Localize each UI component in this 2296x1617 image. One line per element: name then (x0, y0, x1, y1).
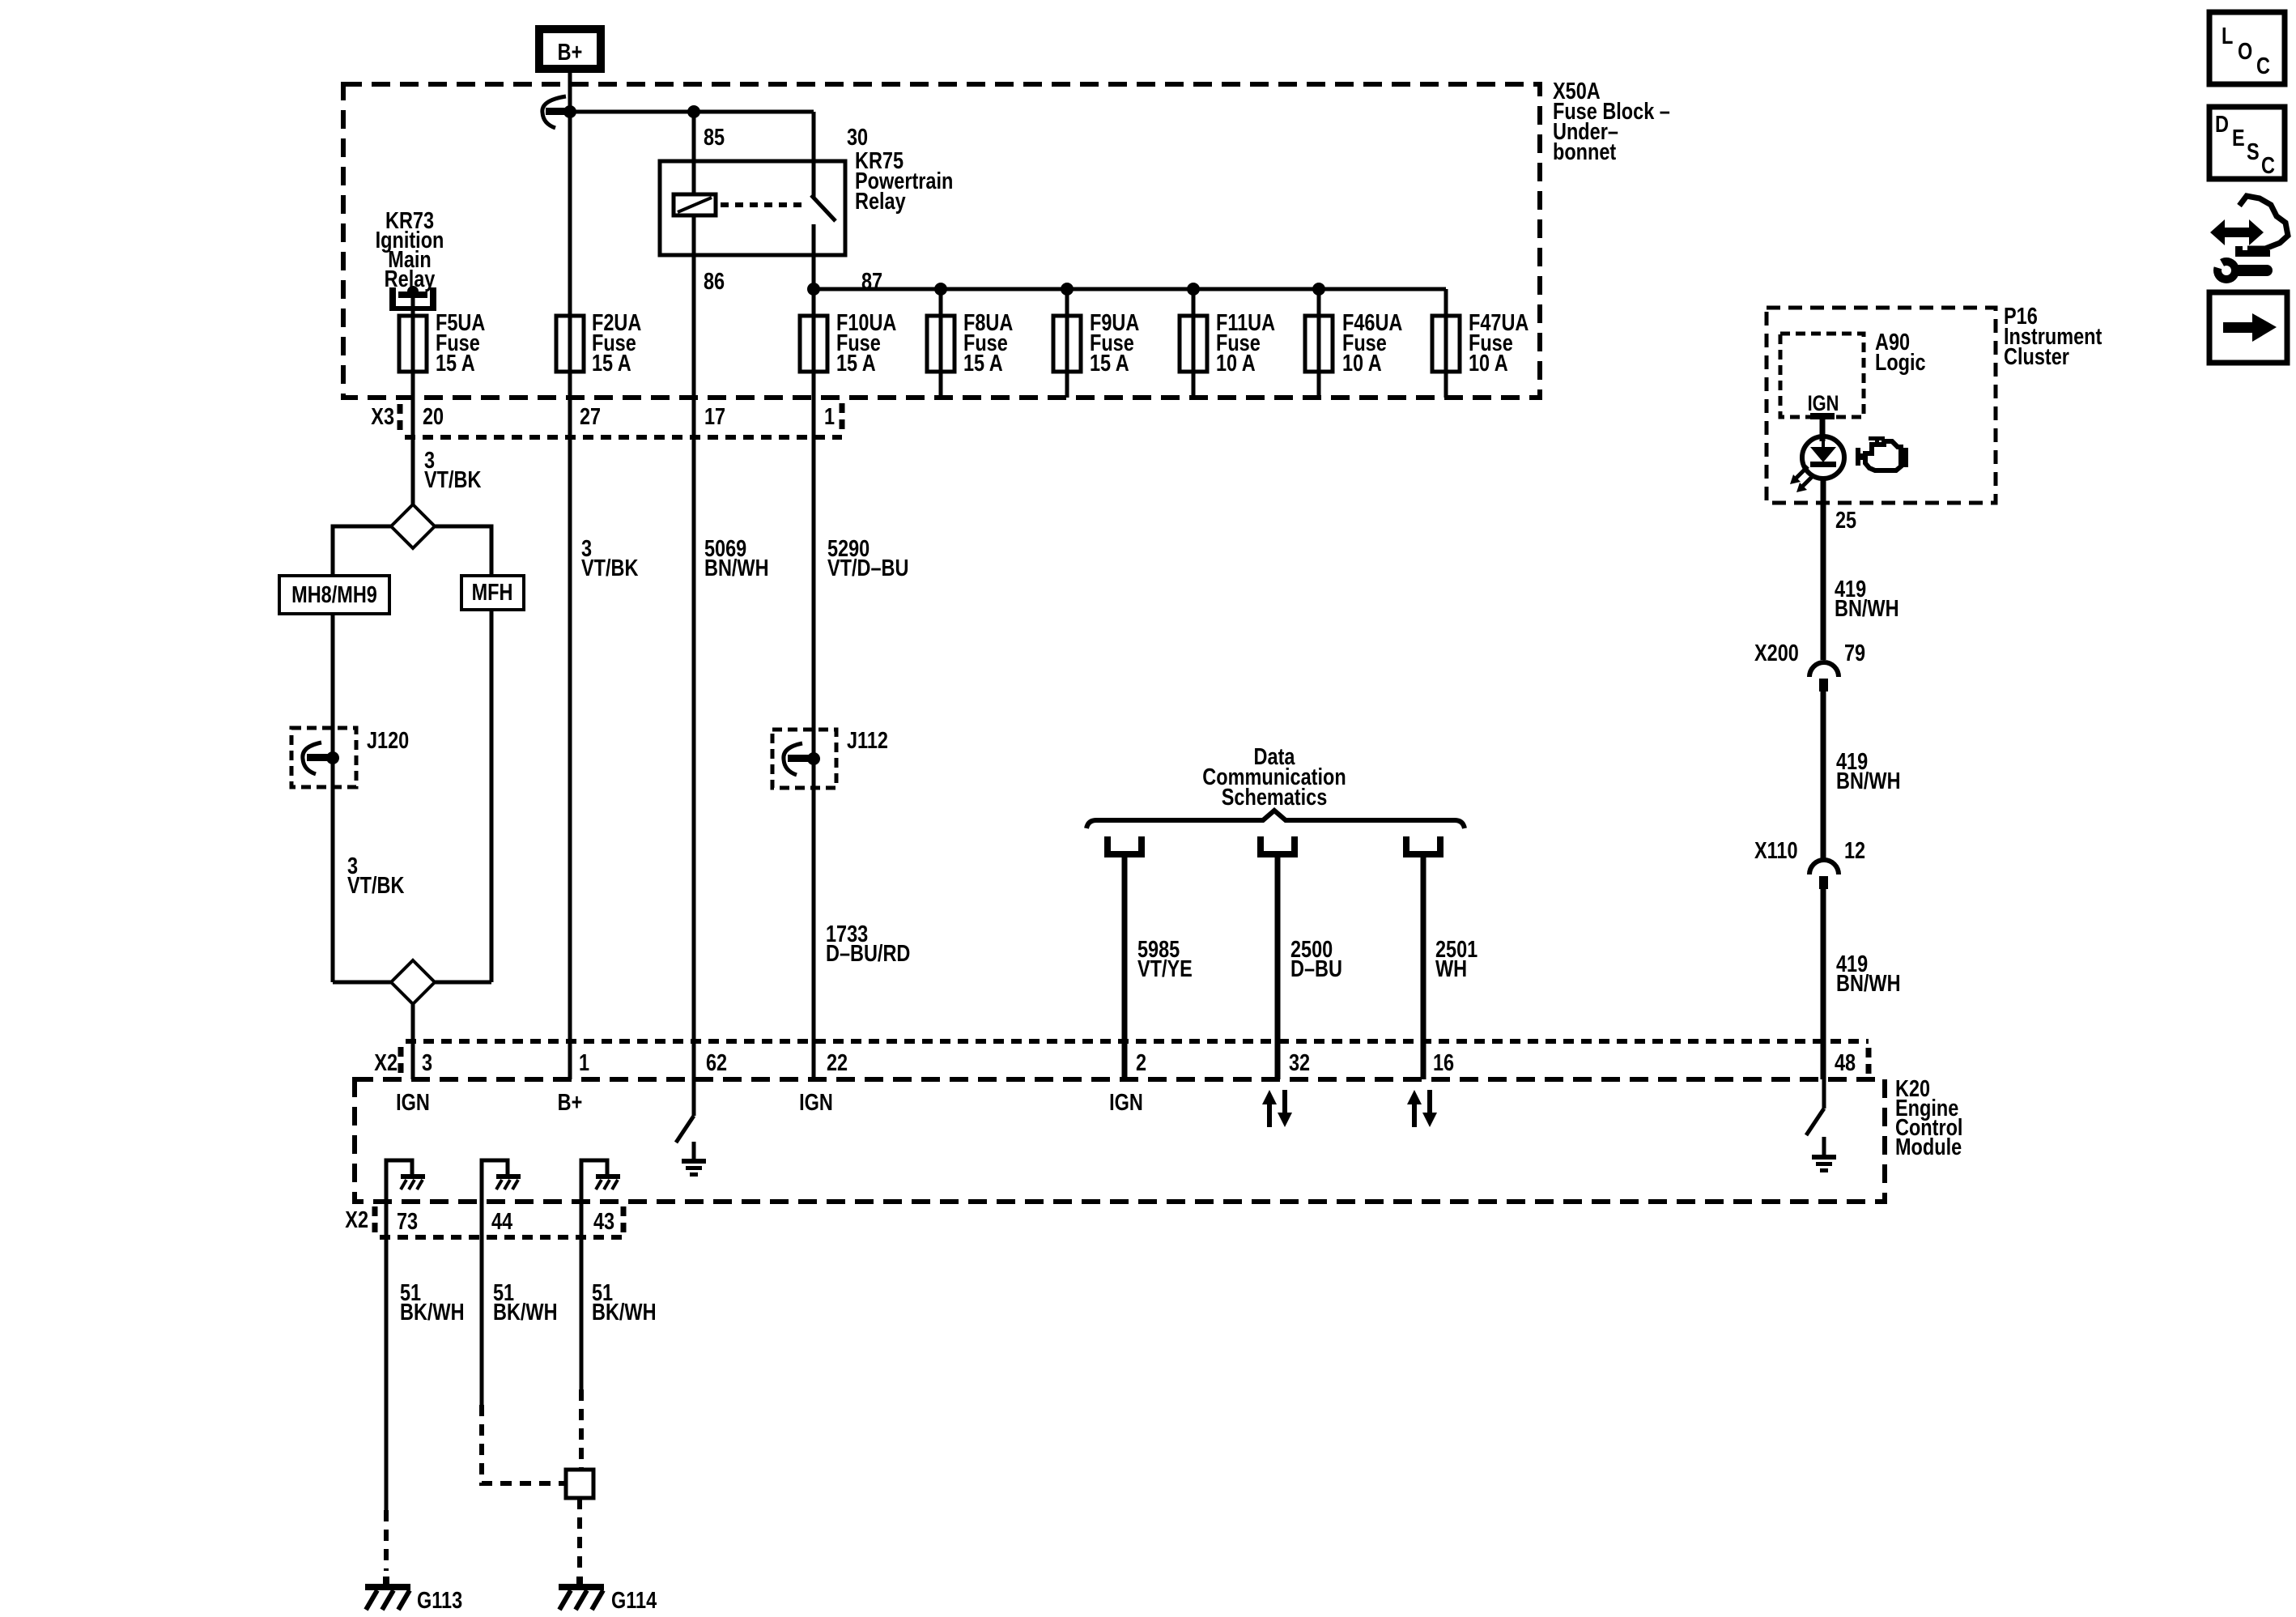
relay KR75 coil (674, 194, 716, 215)
component MFH box (461, 576, 524, 610)
fuse F11UA (1180, 309, 1275, 377)
wire 419 BN/WH mid (1821, 691, 1826, 858)
pin 22 (827, 1049, 848, 1076)
brace for data communication (1086, 811, 1465, 828)
label Data Communication Schematics (1202, 743, 1346, 811)
wire 5069 BN/WH relay 86 to ECM (692, 215, 696, 1079)
svg-text:IGN: IGN (396, 1089, 430, 1116)
svg-text:X3: X3 (371, 403, 394, 430)
switch internal right (1806, 1108, 1824, 1135)
svg-text:BK/WH: BK/WH (400, 1299, 465, 1326)
svg-text:BN/WH: BN/WH (1836, 768, 1901, 794)
label P16 Instrument Cluster (2004, 303, 2103, 370)
svg-text:15 A: 15 A (436, 350, 475, 377)
svg-text:WH: WH (1435, 955, 1467, 982)
pin 44 (491, 1208, 512, 1235)
pin 43 (593, 1208, 614, 1235)
pin 62 (706, 1049, 727, 1076)
fuse F5UA (399, 309, 485, 377)
label 3 VT/BK (581, 535, 638, 581)
svg-text:44: 44 (491, 1208, 512, 1235)
node B+ label X2-1 (558, 1089, 583, 1116)
wire IGN to ECM X2-3 (411, 1004, 415, 1079)
label G114 (611, 1587, 657, 1614)
svg-text:3: 3 (422, 1049, 432, 1076)
svg-text:L: L (2222, 23, 2233, 49)
wire 3 VT/BK from X3-27 to ECM (568, 398, 572, 1079)
svg-text:IGN: IGN (1109, 1089, 1143, 1116)
node junction pin 85 tap (687, 105, 700, 118)
icon LOC box (2209, 12, 2285, 84)
wire F2UA through (568, 316, 572, 398)
svg-text:43: 43 (593, 1208, 614, 1235)
svg-text:C: C (2256, 53, 2270, 79)
svg-text:C: C (2261, 152, 2275, 179)
svg-text:79: 79 (1844, 640, 1865, 666)
pin 1 (579, 1049, 589, 1076)
svg-text:MFH: MFH (472, 579, 513, 606)
wire F46UA feed (1317, 289, 1321, 398)
svg-text:27: 27 (580, 403, 601, 430)
svg-text:B+: B+ (558, 1089, 583, 1116)
node IGN label X2-2 (1109, 1089, 1143, 1116)
LED emission arrows (1790, 466, 1814, 492)
power feed B+ box (535, 25, 605, 73)
wire F10UA feed (812, 289, 816, 398)
wire F11UA feed (1192, 289, 1196, 398)
node IGN label X2-22 (799, 1089, 833, 1116)
connector stub pin 16 lead (1403, 836, 1444, 857)
svg-text:BN/WH: BN/WH (1836, 970, 1901, 997)
svg-text:IGN: IGN (799, 1089, 833, 1116)
pin 48 (1835, 1049, 1856, 1076)
svg-text:VT/D–BU: VT/D–BU (827, 555, 908, 581)
icon harness view car with arrow (2208, 196, 2288, 283)
component MH8/MH9 box (279, 576, 389, 614)
svg-text:X200: X200 (1754, 640, 1799, 666)
splice J112 (772, 730, 836, 788)
splice block box (566, 1470, 593, 1498)
svg-text:32: 32 (1289, 1049, 1310, 1076)
relay KR75 box (660, 161, 845, 255)
svg-text:2: 2 (1136, 1049, 1146, 1076)
relay KR75 switch contact (811, 195, 835, 221)
svg-text:D–BU/RD: D–BU/RD (826, 940, 910, 967)
svg-text:20: 20 (423, 403, 444, 430)
wire 2501 WH (1421, 857, 1426, 1079)
svg-text:J112: J112 (847, 727, 888, 754)
label KR73 Ignition Main Relay (376, 207, 444, 292)
label 5290 VT/D-BU (827, 535, 908, 581)
svg-text:BK/WH: BK/WH (592, 1299, 657, 1326)
connector stub pin 2 lead (1104, 836, 1145, 857)
wire B+ branch to relay (570, 110, 814, 114)
ground G114 (559, 1577, 604, 1610)
wire F8UA feed (939, 289, 943, 398)
svg-text:1: 1 (824, 403, 835, 430)
icon arrow box (2209, 292, 2287, 363)
connector X2 row upper (374, 1041, 1869, 1076)
connector X3 row (371, 403, 842, 437)
svg-text:D: D (2215, 111, 2229, 138)
svg-text:86: 86 (704, 268, 725, 295)
label 419 BN/WH (1836, 748, 1901, 794)
node IGN terminal (1808, 392, 1839, 419)
wire 3 VT/BK from X3-20 (411, 398, 415, 504)
pin 12 (1844, 837, 1865, 864)
label 419 BN/WH (1835, 576, 1899, 622)
wire F9UA feed (1065, 289, 1069, 398)
svg-text:73: 73 (397, 1208, 418, 1235)
svg-text:BN/WH: BN/WH (1835, 595, 1899, 622)
label G113 (417, 1587, 462, 1614)
svg-text:48: 48 (1835, 1049, 1856, 1076)
label A90 Logic (1875, 329, 1926, 376)
svg-text:X2: X2 (345, 1206, 368, 1233)
wire to relay pin 85 (692, 112, 696, 194)
svg-text:VT/BK: VT/BK (424, 466, 481, 493)
data arrows at pin 16 (1407, 1090, 1437, 1127)
svg-text:VT/YE: VT/YE (1137, 955, 1193, 982)
svg-text:MH8/MH9: MH8/MH9 (291, 581, 377, 608)
splice diamond lower (333, 960, 491, 1004)
wire pin 62 internal (692, 1079, 696, 1116)
relay KR75 coil-contact link (721, 202, 808, 207)
label 51 BK/WH (493, 1279, 558, 1326)
connector X2 row lower (345, 1206, 623, 1237)
svg-text:VT/BK: VT/BK (581, 555, 638, 581)
label X50A Fuse Block - Underbonnet (1553, 78, 1670, 165)
pin 73 (397, 1208, 418, 1235)
svg-text:10 A: 10 A (1216, 350, 1256, 377)
instrument cluster P16 dashed box (1767, 308, 1996, 503)
ground G113 (365, 1577, 410, 1610)
label 1733 D-BU/RD (826, 921, 910, 967)
svg-text:J120: J120 (367, 727, 409, 754)
wire to relay pin 30 (812, 112, 816, 197)
pin 79 (1844, 640, 1865, 666)
pin 86 (704, 268, 725, 295)
wire KR73 to fuse F5UA (411, 295, 415, 504)
fuse F8UA (927, 309, 1013, 377)
svg-text:D–BU: D–BU (1290, 955, 1342, 982)
node bus junction at F10UA (807, 283, 820, 296)
fuse F9UA (1053, 309, 1139, 377)
engine control module K20 dashed box (355, 1079, 1885, 1202)
svg-text:15 A: 15 A (836, 350, 876, 377)
svg-text:X110: X110 (1754, 837, 1798, 864)
svg-text:VT/BK: VT/BK (347, 872, 404, 899)
svg-text:B+: B+ (558, 39, 583, 66)
svg-text:10 A: 10 A (1469, 350, 1508, 377)
splice J120 (291, 728, 356, 787)
wire dashed pin 44 elbow (482, 1405, 566, 1483)
wire F47UA feed (1444, 289, 1448, 398)
label 3 VT/BK left branch (347, 853, 404, 899)
label 419 BN/WH (1836, 951, 1901, 997)
svg-text:BK/WH: BK/WH (493, 1299, 558, 1326)
wire left branch upper (333, 526, 391, 576)
node IGN label X2-3 (396, 1089, 430, 1116)
pin 1 (824, 403, 835, 430)
wire IGN to LED (1820, 419, 1826, 441)
svg-text:17: 17 (704, 403, 725, 430)
label KR75 Powertrain Relay (855, 147, 953, 215)
label J112 (847, 727, 888, 754)
label 5069 BN/WH (704, 535, 769, 581)
label 51 BK/WH (592, 1279, 657, 1326)
switch internal left (676, 1116, 694, 1143)
LED indicator lamp (1802, 436, 1844, 479)
pin 30 (847, 124, 868, 151)
label X110 (1754, 837, 1798, 864)
svg-text:Cluster: Cluster (2004, 343, 2069, 370)
connector X110 inline (1809, 860, 1839, 889)
icon DESC box (2209, 107, 2285, 179)
wire 419 BN/WH lower (1821, 889, 1826, 1079)
label 51 BK/WH (400, 1279, 465, 1326)
connector X200 inline (1809, 662, 1839, 691)
splice diamond upper (391, 504, 435, 548)
node bus junction at F9UA (1061, 283, 1074, 296)
ground hook X2-44 internal (482, 1160, 521, 1202)
svg-text:G113: G113 (417, 1587, 462, 1614)
label 2501 WH (1435, 936, 1478, 982)
ground hook X2-73 internal (386, 1160, 425, 1202)
ground internal left (682, 1142, 706, 1177)
wire pin 48 internal (1822, 1079, 1826, 1108)
label K20 Engine Control Module (1895, 1075, 1962, 1160)
wire 5985 VT/YE (1122, 857, 1128, 1079)
fuse block X50A dashed outline (343, 84, 1540, 398)
svg-text:S: S (2247, 138, 2260, 165)
fuse F47UA (1432, 309, 1529, 377)
svg-text:15 A: 15 A (963, 350, 1003, 377)
svg-text:85: 85 (704, 124, 725, 151)
label J120 (367, 727, 409, 754)
wire F5UA through (411, 311, 415, 398)
svg-text:E: E (2232, 125, 2245, 151)
svg-text:62: 62 (706, 1049, 727, 1076)
svg-text:G114: G114 (611, 1587, 657, 1614)
svg-text:15 A: 15 A (1090, 350, 1129, 377)
pin 85 (704, 124, 725, 151)
svg-text:BN/WH: BN/WH (704, 555, 769, 581)
ground internal right (1812, 1137, 1836, 1172)
wire 51 BK/WH pin 44 branch (480, 1202, 484, 1405)
node junction under B+ (563, 105, 576, 118)
svg-text:10 A: 10 A (1342, 350, 1382, 377)
svg-text:bonnet: bonnet (1553, 138, 1616, 165)
pin 27 (580, 403, 601, 430)
svg-text:16: 16 (1433, 1049, 1454, 1076)
fuse F2UA (556, 309, 641, 377)
wire 5290 VT/D-BU from X3-1 to ECM (812, 398, 816, 1079)
wire dashed to G113 (384, 1510, 389, 1571)
relay KR73 contact pedal (389, 286, 436, 311)
pin 87 (861, 268, 882, 295)
pin 32 (1289, 1049, 1310, 1076)
data arrows at pin 32 (1262, 1090, 1292, 1127)
label 2500 D-BU (1290, 936, 1342, 982)
wire 2500 D-BU (1275, 857, 1281, 1079)
ground hook X2-43 internal (581, 1160, 620, 1202)
svg-text:15 A: 15 A (592, 350, 631, 377)
label 3 VT/BK (424, 447, 481, 493)
svg-text:12: 12 (1844, 837, 1865, 864)
connector stub pin 32 lead (1257, 836, 1298, 857)
logic module A90 dashed box (1780, 334, 1864, 417)
svg-text:IGN: IGN (1808, 392, 1839, 416)
wire 419 BN/WH cluster pin 25 (1821, 479, 1826, 660)
node bus junction at F8UA (934, 283, 947, 296)
node bus junction at F11UA (1187, 283, 1200, 296)
pin 20 (423, 403, 444, 430)
pin 3 (422, 1049, 432, 1076)
svg-text:Module: Module (1895, 1134, 1962, 1160)
svg-text:Relay: Relay (855, 188, 906, 215)
svg-text:22: 22 (827, 1049, 848, 1076)
fuse F10UA (800, 309, 896, 377)
svg-text:25: 25 (1835, 507, 1856, 534)
wire 87 output bus (814, 287, 1446, 291)
wire 51 BK/WH pin 43 branch (580, 1202, 584, 1389)
svg-text:Schematics: Schematics (1222, 784, 1328, 811)
pin 16 (1433, 1049, 1454, 1076)
svg-text:1: 1 (579, 1049, 589, 1076)
pin 25 (1835, 507, 1856, 534)
wire 51 BK/WH G113 branch (385, 1202, 389, 1510)
terminal clip at B+ junction (542, 96, 568, 128)
wire dashed pin 43 (579, 1389, 584, 1470)
svg-text:Logic: Logic (1875, 349, 1926, 376)
fuse F46UA (1305, 309, 1402, 377)
check engine icon (1856, 436, 1906, 470)
svg-text:O: O (2238, 38, 2252, 65)
pin 17 (704, 403, 725, 430)
node bus junction at F46UA (1312, 283, 1325, 296)
wire left branch lower (331, 614, 335, 982)
wire right branch lower (490, 610, 494, 982)
wire dashed to G114 (577, 1498, 582, 1571)
label 5985 VT/YE (1137, 936, 1193, 982)
pin 2 (1136, 1049, 1146, 1076)
wire relay pin 87 inside (812, 224, 816, 289)
wire right branch upper (435, 526, 491, 576)
label X200 (1754, 640, 1799, 666)
svg-text:X2: X2 (374, 1049, 398, 1076)
wire B+ feed vertical (568, 73, 572, 316)
